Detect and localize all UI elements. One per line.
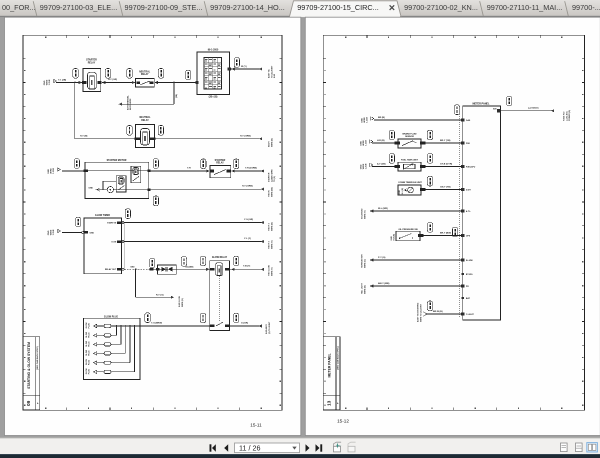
svg-text:METER PANEL: METER PANEL [327, 353, 331, 377]
svg-text:WIRE (G): WIRE (G) [364, 259, 366, 268]
svg-text:GY-B (GYR): GY-B (GYR) [440, 163, 452, 165]
svg-text:PLUG: PLUG [89, 350, 91, 356]
svg-text:W-L (WR): W-L (WR) [378, 208, 388, 210]
svg-text:RELAY: RELAY [141, 119, 149, 122]
svg-text:99-1-2000: 99-1-2000 [208, 50, 219, 52]
svg-text:GND: GND [361, 118, 363, 123]
svg-text:ILLUMI: ILLUMI [466, 260, 473, 262]
svg-text:WIRE (B): WIRE (B) [271, 138, 273, 147]
svg-text:GND: GND [88, 188, 93, 190]
svg-text:H-Y (GRB): H-Y (GRB) [240, 135, 251, 137]
svg-text:99700-27100-02_KN...: 99700-27100-02_KN... [404, 3, 478, 12]
svg-text:1.25B: 1.25B [367, 117, 369, 123]
svg-text:ASSY 7A: ASSY 7A [268, 69, 271, 78]
svg-text:YA (AW): YA (AW) [185, 265, 194, 268]
svg-text:POWER (G): POWER (G) [569, 110, 571, 121]
svg-text:FUEL TANK UNIT: FUEL TANK UNIT [401, 159, 419, 162]
svg-text:1.25B: 1.25B [53, 229, 55, 235]
svg-text:STARTER: STARTER [268, 172, 271, 182]
svg-text:GND: GND [130, 267, 135, 269]
svg-text:99709-27100-15_CIRC...: 99709-27100-15_CIRC... [297, 3, 379, 12]
svg-text:STARTER: STARTER [86, 59, 97, 62]
svg-text:Y-G (BRW): Y-G (BRW) [151, 322, 162, 324]
svg-text:THE GLOW: THE GLOW [269, 265, 271, 276]
svg-text:IG IN: IG IN [112, 241, 117, 243]
svg-text:THE R.T.: THE R.T. [269, 240, 271, 249]
svg-text:Y-1 (2B): Y-1 (2B) [58, 80, 66, 82]
svg-text:METER PANEL: METER PANEL [473, 102, 490, 105]
svg-text:BR-Y (YB): BR-Y (YB) [440, 140, 451, 142]
svg-text:H-Y (B): H-Y (B) [80, 135, 88, 137]
svg-text:START IN: START IN [107, 221, 117, 224]
svg-text:RELAY: RELAY [141, 73, 149, 76]
svg-text:HORN-METER: HORN-METER [362, 254, 364, 268]
svg-text:Y-L (Y): Y-L (Y) [244, 238, 251, 240]
svg-text:15-12: 15-12 [337, 419, 349, 424]
svg-text:1.25B: 1.25B [53, 168, 55, 174]
svg-text:WIRE TO (2) JOINT: WIRE TO (2) JOINT [420, 303, 422, 322]
svg-text:WIRE: WIRE [364, 117, 366, 123]
svg-text:B-W GLOW: B-W GLOW [179, 296, 181, 307]
svg-text:WIRE: WIRE [51, 229, 53, 235]
svg-text:WIRE (B4): WIRE (B4) [270, 187, 273, 197]
svg-text:PLUG: PLUG [89, 359, 91, 365]
svg-text:FUSE F10: FUSE F10 [564, 111, 566, 121]
svg-text:15-11: 15-11 [250, 423, 262, 428]
svg-text:(+) IG ACC: (+) IG ACC [565, 110, 568, 121]
svg-text:99709-27100-14_HO...: 99709-27100-14_HO... [210, 3, 285, 12]
svg-text:FUEL&FU: FUEL&FU [466, 167, 476, 169]
svg-text:BT-WG: BT-WG [466, 274, 473, 276]
svg-text:OPS: OPS [466, 236, 471, 238]
svg-text:1.25B: 1.25B [49, 79, 51, 85]
svg-text:GND: GND [44, 80, 46, 85]
svg-text:THE IN: THE IN [269, 190, 271, 197]
svg-text:FSE: FSE [466, 143, 471, 145]
svg-text:Y-LIGHT: Y-LIGHT [466, 314, 475, 316]
svg-text:(2B): (2B) [176, 94, 178, 98]
svg-text:Q-AWD WIRE: Q-AWD WIRE [270, 169, 273, 182]
svg-text:WIRE (Y): WIRE (Y) [271, 240, 273, 249]
svg-text:B-W ASSY: B-W ASSY [265, 323, 268, 334]
svg-text:BR-W (B): BR-W (B) [433, 311, 443, 313]
svg-text:THE R.T.: THE R.T. [269, 222, 271, 231]
svg-text:5-WT: 5-WT [466, 190, 472, 192]
svg-text:GND: GND [90, 232, 95, 234]
svg-text:1.25B: 1.25B [366, 140, 368, 146]
svg-text:G (GR): G (GR) [241, 322, 248, 324]
svg-text:WIRE: WIRE [363, 163, 365, 169]
svg-text:GN-Y (YB): GN-Y (YB) [440, 186, 451, 188]
svg-text:Y-G (GR): Y-G (GR) [244, 219, 253, 221]
svg-text:(2B+1B): (2B+1B) [209, 97, 218, 99]
svg-text:BODY WIRE: BODY WIRE [130, 98, 132, 110]
svg-text:11 / 26: 11 / 26 [239, 443, 260, 452]
svg-text:00_FOR...: 00_FOR... [2, 3, 36, 12]
svg-text:Y-R (2GRB): Y-R (2GRB) [245, 167, 257, 169]
svg-text:SENSOR: SENSOR [405, 136, 414, 138]
svg-text:PLUG: PLUG [89, 341, 91, 347]
svg-text:RELAY: RELAY [88, 61, 96, 64]
svg-text:GND: GND [48, 230, 50, 235]
svg-text:BODY: BODY [269, 141, 271, 147]
svg-text:TO (2): TO (2) [274, 176, 276, 182]
svg-text:(+) IG/ACC: (+) IG/ACC [528, 107, 539, 110]
svg-text:STARTING & GLOW SYSTEM: STARTING & GLOW SYSTEM [27, 342, 31, 389]
svg-text:WIRE (G): WIRE (G) [182, 298, 184, 307]
svg-text:Y-R: Y-R [187, 167, 191, 169]
svg-text:WIRE (B): WIRE (B) [364, 285, 366, 294]
svg-text:STARTER: STARTER [215, 159, 226, 162]
svg-text:WIRE: WIRE [363, 140, 365, 146]
svg-text:BR-Y (BW): BR-Y (BW) [440, 232, 451, 234]
svg-text:GLOW RELAY: GLOW RELAY [212, 256, 228, 259]
svg-text:AW-Y (WB): AW-Y (WB) [378, 282, 390, 285]
svg-text:H-Y (GRB): H-Y (GRB) [242, 186, 253, 188]
svg-text:NEUTRAL: NEUTRAL [139, 70, 151, 73]
svg-text:WIRE (Y): WIRE (Y) [364, 210, 366, 219]
svg-text:RELAY OUT: RELAY OUT [105, 268, 117, 271]
svg-text:H-L (B): H-L (B) [402, 188, 404, 195]
svg-text:AUTO/MANUAL: AUTO/MANUAL [127, 94, 130, 110]
svg-text:WIRE: WIRE [47, 79, 49, 85]
svg-text:WIRE (Y): WIRE (Y) [271, 267, 273, 276]
svg-text:STARTER MOTOR: STARTER MOTOR [107, 159, 127, 162]
svg-text:R-Y (G): R-Y (G) [156, 294, 164, 296]
svg-text:COMBI TIMER/IGN UNIT: COMBI TIMER/IGN UNIT [398, 182, 422, 184]
svg-text:WIRE: WIRE [51, 168, 53, 174]
svg-text:09: 09 [26, 400, 31, 406]
svg-text:BR (B): BR (B) [378, 117, 385, 119]
svg-text:RELAY: RELAY [216, 162, 224, 165]
svg-text:GLOW TIMER: GLOW TIMER [95, 215, 110, 217]
svg-text:TAIL LIGHT: TAIL LIGHT [361, 282, 364, 294]
svg-text:A.T.L: A.T.L [466, 210, 472, 213]
svg-text:WIRE (B): WIRE (B) [271, 222, 273, 231]
svg-text:IGN: IGN [493, 108, 497, 110]
svg-text:99700-...: 99700-... [572, 3, 600, 12]
svg-text:B-W: B-W [274, 74, 276, 78]
svg-text:TO (2) JOINT: TO (2) JOINT [271, 65, 273, 78]
svg-text:(W/O CAB BACK SPEC): (W/O CAB BACK SPEC) [337, 346, 340, 370]
svg-text:SOLENOID: SOLENOID [362, 208, 364, 219]
svg-text:99709-27100-03_ELE...: 99709-27100-03_ELE... [40, 3, 118, 12]
svg-text:H-B (B): H-B (B) [394, 234, 396, 241]
svg-text:GAS: GAS [466, 119, 471, 122]
svg-text:1.25B: 1.25B [366, 163, 368, 169]
svg-text:GND: GND [360, 164, 362, 169]
svg-text:H-R (B): H-R (B) [377, 140, 385, 142]
svg-text:(W/O CAB BACK SPEC): (W/O CAB BACK SPEC) [36, 346, 39, 370]
svg-text:Y-B (Y): Y-B (Y) [243, 266, 250, 268]
svg-text:PLUG: PLUG [89, 323, 91, 329]
svg-text:GND: GND [48, 169, 50, 174]
svg-text:PLUG: PLUG [89, 369, 91, 375]
svg-text:NEUTRAL: NEUTRAL [140, 116, 152, 119]
svg-text:W (Y): W (Y) [241, 66, 247, 68]
svg-text:99700-27110-11_MAI...: 99700-27110-11_MAI... [487, 3, 563, 12]
svg-text:H-Y (GR): H-Y (GR) [108, 79, 117, 81]
svg-text:ASSY 7B STEERING: ASSY 7B STEERING [417, 302, 420, 322]
svg-text:13: 13 [326, 400, 331, 406]
svg-text:A-T (2B): A-T (2B) [377, 163, 386, 166]
svg-text:P-Y (G): P-Y (G) [378, 257, 386, 259]
svg-text:PLUG: PLUG [89, 332, 91, 338]
svg-text:(2) TO JOINT: (2) TO JOINT [269, 321, 271, 334]
svg-text:99709-27100-09_STE...: 99709-27100-09_STE... [125, 3, 203, 12]
svg-text:BRAKE FLUID: BRAKE FLUID [402, 132, 417, 135]
svg-text:GND: GND [360, 141, 362, 146]
